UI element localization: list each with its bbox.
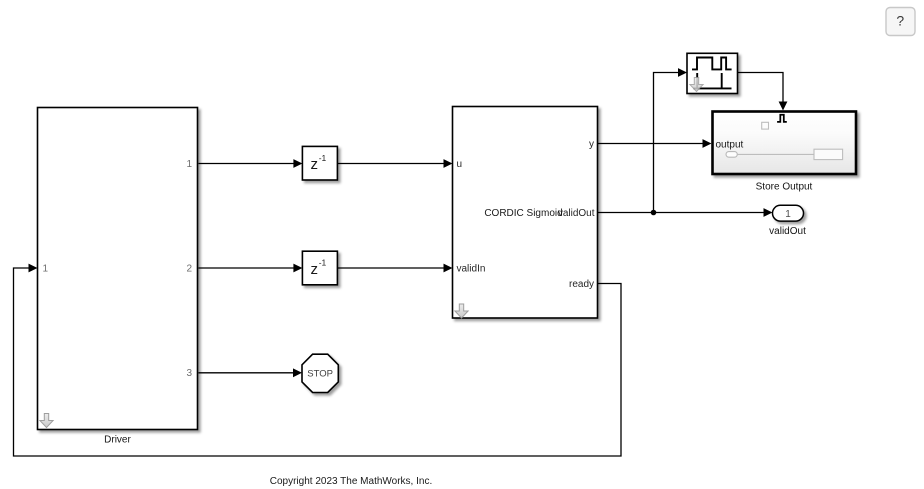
svg-text:?: ? [896,13,904,29]
svg-text:validIn: validIn [457,264,486,275]
subsystem Driver [38,108,198,430]
svg-text:Copyright 2023 The MathWorks,: Copyright 2023 The MathWorks, Inc. [270,476,433,487]
wire branch junction up to pulse block [654,68,688,212]
svg-text:validOut: validOut [558,208,595,219]
Driver link badge arrow [40,414,53,428]
svg-text:2: 2 [186,264,192,275]
svg-text:y: y [589,139,594,150]
svg-text:CORDIC Sigmoid: CORDIC Sigmoid [484,208,562,219]
svg-text:1: 1 [785,209,791,220]
svg-text:u: u [457,159,463,170]
CORDIC link badge arrow [455,304,468,318]
wire Driver port1 to Unit Delay1 [199,159,303,168]
subsystem Store Output [713,112,857,175]
svg-text:z: z [311,261,319,278]
svg-text:-1: -1 [319,153,327,163]
pulse block link badge arrow [690,78,703,92]
svg-text:Driver: Driver [104,435,131,446]
outport validOut [773,205,804,221]
wire CORDIC validOut to outport validOut [598,208,773,217]
wire Unit Delay2 to CORDIC validIn [337,264,452,273]
svg-text:ready: ready [569,279,594,290]
svg-text:1: 1 [186,159,192,170]
Store Output trigger pulse icon [777,115,787,122]
svg-text:3: 3 [186,368,192,379]
unit delay block z^-1 (lower) [302,251,337,285]
wire CORDIC ready feedback to Driver input [14,264,622,456]
unit delay block z^-1 (upper) [302,146,337,180]
pulse stretcher block [687,53,738,93]
wire Driver port2 to Unit Delay2 [199,264,303,273]
junction dot on validOut wire [651,210,657,216]
stop simulation block [302,354,338,392]
svg-text:-1: -1 [319,258,327,268]
help button [886,8,915,36]
svg-text:Store Output: Store Output [756,181,813,192]
Store Output slider knob [726,152,737,158]
svg-text:STOP: STOP [307,369,333,380]
wire Driver port3 to STOP [199,368,303,377]
svg-text:z: z [311,156,319,173]
subsystem CORDIC Sigmoid [453,107,598,319]
Store Output slider track [737,153,814,155]
Store Output edit box [814,149,843,159]
svg-text:validOut: validOut [769,226,806,237]
svg-text:output: output [716,139,744,150]
svg-text:1: 1 [43,264,49,275]
Store Output small gray square icon [762,122,769,129]
wire Unit Delay1 to CORDIC u [337,159,452,168]
wire pulse block to Store Output trigger [738,73,788,111]
wire CORDIC y to Store Output input [598,139,712,148]
